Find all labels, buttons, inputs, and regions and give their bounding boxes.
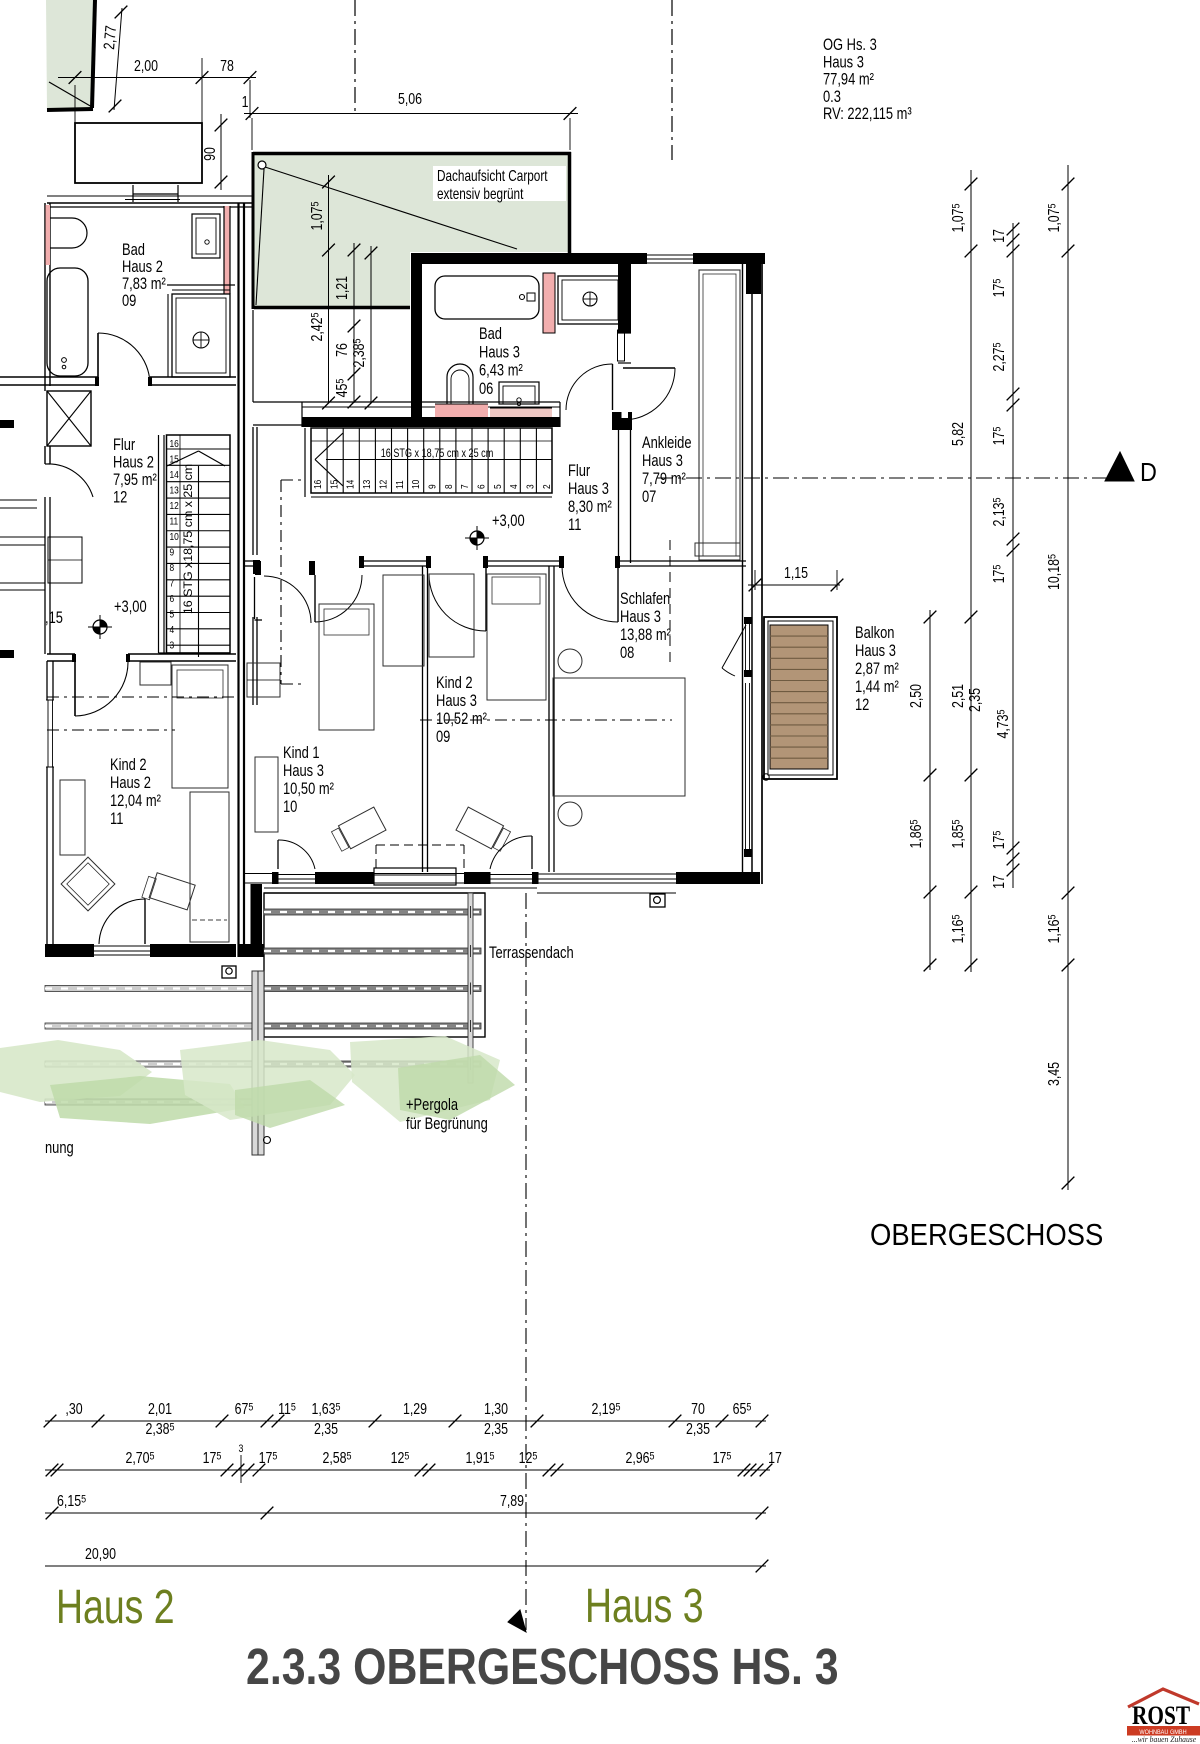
dresser Ankleide — [695, 543, 740, 556]
room axis Kind2 Haus2 — [47, 696, 236, 698]
svg-text:17: 17 — [768, 1449, 782, 1467]
cabinet hall Haus 2 — [140, 662, 171, 685]
axis line top x355 — [354, 0, 356, 115]
Flur Haus 3 door — [612, 364, 614, 410]
neighbour fragments left edge — [0, 420, 14, 428]
Flur Haus 2 west window boxes — [48, 537, 82, 583]
svg-text:3: 3 — [170, 640, 175, 652]
dim chain carport vertical B — [353, 243, 355, 403]
svg-text:13: 13 — [170, 485, 179, 497]
svg-text:5: 5 — [170, 609, 175, 621]
divider Kind2/Schlafen Haus 3 — [548, 566, 550, 872]
Haus 2 dormer rectangle (chimney block) — [75, 123, 202, 183]
svg-text:Balkon: Balkon — [855, 623, 894, 642]
svg-text:09: 09 — [122, 291, 136, 310]
Haus 3 north wall — [411, 253, 647, 264]
svg-text:08: 08 — [620, 643, 634, 662]
svg-text:06: 06 — [479, 379, 493, 398]
party wall Haus 2 / Haus 3 — [237, 203, 239, 957]
Haus 2 west wall upper (Bad Haus 2) — [44, 203, 46, 386]
downpipe symbol Haus 2 — [222, 966, 236, 978]
svg-text:2,35: 2,35 — [314, 1420, 338, 1438]
stair landing band — [252, 310, 254, 402]
bed Kind 1 Haus 3 — [319, 604, 374, 730]
svg-text:Haus 3: Haus 3 — [585, 1580, 704, 1634]
svg-text:17: 17 — [990, 875, 1008, 889]
svg-text:2,77: 2,77 — [100, 25, 120, 51]
svg-text:10,185: 10,185 — [1045, 554, 1063, 590]
svg-text:12: 12 — [113, 488, 127, 507]
svg-text:7,89: 7,89 — [500, 1492, 524, 1510]
Schlafen south window — [537, 873, 676, 875]
washbasin Bad Haus 3 — [499, 382, 539, 404]
svg-text:OBERGESCHOSS: OBERGESCHOSS — [870, 1219, 1103, 1253]
carport roof drainage point and slope lines — [258, 161, 266, 169]
svg-text:Haus 3: Haus 3 — [620, 607, 661, 626]
Bad Haus 2 south wall with door opening — [0, 376, 98, 378]
svg-text:09: 09 — [436, 727, 450, 746]
pink wall Bad Haus 3 — [543, 273, 555, 333]
ROST logo red band — [1127, 1726, 1200, 1736]
dim chain D left x930 — [929, 610, 931, 970]
svg-text:Haus 2: Haus 2 — [113, 453, 154, 472]
svg-text:12: 12 — [855, 695, 869, 714]
svg-text:Haus 3: Haus 3 — [436, 691, 477, 710]
wardrobe Kind 1 Haus 3 — [383, 575, 424, 666]
svg-text:6: 6 — [170, 593, 175, 605]
svg-text:16: 16 — [170, 438, 179, 450]
balcony Haus 3 — [764, 617, 837, 779]
svg-text:Flur: Flur — [568, 461, 590, 480]
desk Kind 2 Haus 2 — [142, 871, 195, 912]
Ankleide door — [623, 367, 675, 369]
closet Ankleide — [699, 270, 740, 560]
ROST logo roof — [1128, 1689, 1199, 1707]
svg-text:Kind 1: Kind 1 — [283, 743, 320, 762]
svg-text:für Begrünung: für Begrünung — [406, 1114, 488, 1133]
bathtub Haus 3 — [435, 276, 539, 319]
hall Haus 3 west partition — [252, 427, 254, 555]
pergola post left — [252, 971, 264, 1155]
svg-text:Bad: Bad — [479, 324, 502, 343]
pink wall strips above stair — [302, 406, 560, 408]
svg-text:11: 11 — [568, 515, 581, 534]
shelf Kind 1 Haus 3 — [255, 757, 278, 832]
svg-text:5,82: 5,82 — [949, 422, 967, 446]
dim chain carport vertical C — [370, 246, 372, 403]
door arc Kind 1 south — [277, 840, 279, 869]
beam crossing marks at post — [470, 906, 472, 918]
south facade sills — [264, 887, 537, 889]
pergola greenery blobs — [0, 1040, 152, 1102]
svg-text:5,06: 5,06 — [398, 90, 422, 108]
east wall balcony door and window frames — [745, 618, 747, 676]
svg-text:1: 1 — [242, 93, 249, 111]
svg-text:9: 9 — [170, 547, 175, 559]
dim 2,77 rotated — [114, 8, 122, 110]
Flur Haus 2 west door arc — [47, 464, 93, 497]
svg-text:Kind 2: Kind 2 — [110, 755, 147, 774]
dim chain carport vertical A — [328, 175, 330, 403]
svg-text:77,94 m²: 77,94 m² — [823, 70, 874, 89]
svg-text:...wir bauen Zuhause: ...wir bauen Zuhause — [1132, 1735, 1197, 1744]
svg-text:12: 12 — [170, 500, 179, 512]
Haus 3 west jog wall to Haus 2 — [251, 884, 263, 944]
Bad Haus 3 door leaf — [618, 332, 631, 334]
svg-text:extensiv begrünt: extensiv begrünt — [437, 185, 523, 202]
svg-text:4: 4 — [508, 484, 520, 489]
landing void dash-dot bracket — [281, 479, 301, 481]
Haus 3 shared window Kind1/Kind2 dashed niche — [376, 844, 464, 846]
corridor wall y560 segments — [244, 560, 255, 562]
carport green roof — [253, 152, 571, 309]
svg-text:Haus 3: Haus 3 — [855, 641, 896, 660]
dim chain A x971 — [970, 170, 972, 972]
bed Kind 2 Haus 3 — [487, 574, 546, 700]
svg-text:Ankleide: Ankleide — [642, 433, 691, 452]
stair Haus 2 — [167, 435, 231, 653]
svg-text:16 STG x18,75 cm x 25 cm: 16 STG x18,75 cm x 25 cm — [181, 464, 194, 614]
door Schlafen Haus 3 — [617, 566, 619, 622]
balcony door leaf open — [722, 625, 746, 668]
svg-text:11: 11 — [170, 516, 179, 528]
axis line top x672 — [671, 0, 673, 160]
Kind 2 Haus 2 north wall with door opening — [47, 653, 75, 655]
east wall NE corner block — [746, 264, 761, 294]
svg-text:10: 10 — [283, 797, 297, 816]
nightstands Schlafen — [558, 649, 582, 673]
svg-text:12,04 m²: 12,04 m² — [110, 791, 161, 810]
stair Haus 3 — [311, 428, 552, 493]
divider Kind1/Kind2 Haus 3 — [422, 566, 424, 872]
svg-text:7,95 m²: 7,95 m² — [113, 470, 157, 489]
svg-text:10,50 m²: 10,50 m² — [283, 779, 334, 798]
svg-text:4: 4 — [170, 624, 175, 636]
svg-text:8: 8 — [443, 484, 455, 489]
pergola beams — [264, 909, 481, 915]
svg-text:10: 10 — [170, 531, 179, 543]
svg-text:,15: ,15 — [45, 608, 63, 627]
svg-text:9: 9 — [427, 484, 439, 489]
svg-text:1,29: 1,29 — [403, 1400, 427, 1418]
svg-text:20,90: 20,90 — [85, 1545, 116, 1563]
svg-text:0.3: 0.3 — [823, 87, 841, 106]
svg-text:12: 12 — [378, 480, 390, 489]
bathtub Haus 2 — [47, 268, 88, 376]
carport label box — [433, 166, 566, 201]
Haus 2 south door arc — [144, 899, 146, 944]
dim row 3 — [45, 1512, 766, 1514]
Terrassendach outline — [264, 893, 485, 1037]
svg-text:Haus 2: Haus 2 — [56, 1581, 175, 1635]
svg-text:2,35: 2,35 — [484, 1420, 508, 1438]
svg-text:2,35: 2,35 — [966, 688, 984, 712]
dim row 4 — [45, 1565, 766, 1567]
svg-text:16: 16 — [312, 480, 324, 489]
svg-text:2,01: 2,01 — [148, 1400, 172, 1418]
svg-text:90: 90 — [201, 147, 219, 161]
washbasin Bad Haus 2 — [192, 214, 220, 258]
desk Kind 2 Haus 3 — [456, 807, 511, 853]
Haus 3 east wall — [742, 264, 744, 872]
svg-text:7: 7 — [459, 484, 471, 489]
axis hall Haus 3 — [280, 480, 282, 684]
svg-text:2,87 m²: 2,87 m² — [855, 659, 899, 678]
svg-text:+3,00: +3,00 — [114, 597, 147, 616]
sink Bad Haus 2 — [50, 218, 87, 248]
wardrobe Kind 2 Haus 2 — [60, 780, 85, 855]
svg-text:7: 7 — [170, 578, 175, 590]
svg-text:7,79 m²: 7,79 m² — [642, 469, 686, 488]
svg-text:,30: ,30 — [65, 1400, 82, 1418]
Ankleide west wall — [618, 264, 631, 333]
svg-text:Flur: Flur — [113, 435, 135, 454]
svg-text:Haus 3: Haus 3 — [283, 761, 324, 780]
svg-text:1,44 m²: 1,44 m² — [855, 677, 899, 696]
svg-text:1,30: 1,30 — [484, 1400, 508, 1418]
dim row 1 — [45, 1420, 766, 1422]
Haus 2 north wall — [47, 202, 253, 204]
Bad Haus 2 door — [97, 333, 99, 385]
svg-text:Haus 2: Haus 2 — [110, 773, 151, 792]
section arrowhead bottom — [508, 1610, 526, 1632]
svg-text:07: 07 — [642, 487, 656, 506]
svg-text:11: 11 — [394, 480, 406, 489]
svg-text:2,50: 2,50 — [907, 684, 925, 708]
svg-text:14: 14 — [170, 469, 179, 481]
bed Kind 2 Haus 2 — [172, 665, 228, 788]
svg-text:OG Hs. 3: OG Hs. 3 — [823, 35, 877, 54]
Haus 2 south wall — [45, 944, 94, 957]
dim chain C x1068 — [1067, 165, 1069, 1190]
svg-text:70: 70 — [691, 1400, 705, 1418]
pink wall strip Bad Haus 2 east — [224, 206, 230, 294]
dormer connector — [132, 185, 134, 202]
svg-text:8: 8 — [170, 562, 175, 574]
svg-text:Terrassendach: Terrassendach — [489, 943, 574, 962]
svg-text:+Pergola: +Pergola — [406, 1095, 459, 1114]
svg-text:5: 5 — [492, 484, 504, 489]
svg-text:Schlafen: Schlafen — [620, 589, 670, 608]
svg-text:nung: nung — [45, 1138, 74, 1157]
svg-text:Haus 3: Haus 3 — [823, 53, 864, 72]
Kind 2 Haus 2 door — [74, 661, 76, 716]
svg-text:D: D — [1140, 459, 1157, 487]
svg-text:2,51: 2,51 — [949, 684, 967, 708]
Haus 3 west wall — [411, 253, 422, 427]
landing west wall — [301, 402, 303, 427]
svg-text:1,15: 1,15 — [784, 564, 808, 582]
balcony door sill mark — [763, 774, 769, 780]
svg-text:15: 15 — [170, 454, 179, 466]
landing dark wall band — [302, 417, 560, 427]
Haus 3 north window Ankleide — [647, 254, 693, 256]
svg-text:3,45: 3,45 — [1045, 1062, 1063, 1086]
hall Haus 3 door — [264, 576, 311, 623]
svg-text:3: 3 — [525, 484, 537, 489]
svg-text:Haus 3: Haus 3 — [568, 479, 609, 498]
svg-text:10: 10 — [410, 480, 422, 489]
bed Schlafen Haus 3 — [553, 678, 685, 796]
section marker D triangle — [1105, 452, 1134, 481]
landing L-wall piece — [254, 577, 256, 619]
terrassendach inner vertical — [468, 893, 473, 1083]
svg-text:15: 15 — [329, 480, 341, 489]
svg-text:Dachaufsicht Carport: Dachaufsicht Carport — [437, 167, 548, 184]
axis section bottom x526 — [525, 893, 527, 1630]
armchair Kind 2 Haus 2 — [61, 857, 115, 911]
svg-text:Haus 3: Haus 3 — [642, 451, 683, 470]
Haus 2 west wall fragments lower — [44, 446, 46, 464]
dim 90 dormer — [220, 114, 222, 190]
Haus 3 south door thresholds — [278, 874, 315, 876]
svg-text:13,88 m²: 13,88 m² — [620, 625, 671, 644]
Haus 3 shared window sill box — [374, 868, 456, 885]
svg-text:Kind 2: Kind 2 — [436, 673, 473, 692]
wardrobe Kind 2 Haus 3 — [429, 574, 474, 657]
cabinet hall Haus 3 — [247, 663, 280, 697]
door arc Kind 2 Haus 3 south — [531, 836, 533, 869]
sideboard Kind 2 Haus 2 — [190, 792, 229, 942]
svg-text:1,21: 1,21 — [333, 276, 351, 300]
shower Bad Haus 2 — [167, 294, 169, 377]
svg-text:76: 76 — [333, 343, 351, 357]
door Kind 2 Haus 3 — [485, 566, 487, 631]
dim chain B x1013 — [1012, 223, 1014, 888]
svg-text:17: 17 — [990, 229, 1008, 243]
left edge window piece y500 — [0, 499, 37, 501]
svg-text:13: 13 — [361, 480, 373, 489]
svg-text:Haus 3: Haus 3 — [479, 343, 520, 362]
pink wall strip Bad Haus 2 west — [46, 205, 51, 265]
dim 5,06 and tick 1 — [244, 113, 578, 115]
svg-text:2: 2 — [541, 484, 553, 489]
room axis Schlafen — [420, 719, 672, 721]
svg-text:2,35: 2,35 — [686, 1420, 710, 1438]
Haus 3 south wall segments — [244, 873, 278, 875]
Kind 2 Haus 2 west window — [46, 700, 55, 767]
svg-text:2,00: 2,00 — [134, 57, 158, 75]
svg-text:3: 3 — [239, 1443, 244, 1455]
svg-text:8,30 m²: 8,30 m² — [568, 497, 612, 516]
Kind 2 Haus 2 west wall — [46, 661, 48, 944]
Haus 2 south window — [94, 945, 150, 947]
shaft with X — [47, 391, 91, 446]
svg-text:10,52 m²: 10,52 m² — [436, 709, 487, 728]
svg-text:6,43 m²: 6,43 m² — [479, 361, 523, 380]
svg-text:14: 14 — [345, 480, 357, 489]
svg-text:RV: 222,115 m³: RV: 222,115 m³ — [823, 105, 912, 124]
desk Kind 1 Haus 3 — [331, 807, 386, 853]
green roof wedge top-left — [46, 0, 95, 110]
svg-text:+3,00: +3,00 — [492, 511, 525, 530]
wc Bad Haus 3 — [447, 364, 473, 404]
svg-text:6: 6 — [476, 484, 488, 489]
door Kind 1 Haus 3 — [314, 575, 316, 622]
svg-text:78: 78 — [220, 57, 234, 75]
svg-text:16 STG x 18,75 cm x 25 cm: 16 STG x 18,75 cm x 25 cm — [381, 448, 494, 460]
svg-text:11: 11 — [110, 809, 123, 828]
dim row 2 — [45, 1469, 770, 1471]
downpipe symbol Haus 3 — [650, 894, 665, 907]
svg-text:2.3.3 OBERGESCHOSS HS. 3: 2.3.3 OBERGESCHOSS HS. 3 — [246, 1637, 839, 1694]
dim 2,00 / 78 — [58, 77, 256, 79]
dim 1,15 balcony — [748, 584, 840, 586]
shower Bad Haus 3 — [558, 276, 622, 324]
section line D horizontal — [657, 477, 1108, 479]
